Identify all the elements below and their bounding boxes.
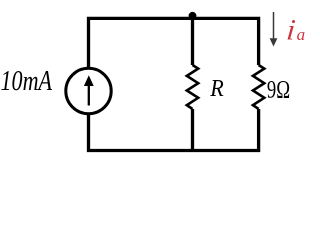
resistor R zigzag [187,65,198,109]
current source I1 arrow head [84,75,94,86]
wire bottom (left riser, bottom rail, right riser) [89,109,259,151]
svg-text:R: R [209,75,223,102]
node A junction dot [189,12,197,20]
current source I1 arrow shaft [88,85,90,106]
svg-text:a: a [297,25,306,44]
current arrow i_a shaft [273,12,275,40]
wire top (left riser, top rail, right riser) [89,18,259,67]
resistor R2 9ohm zigzag [253,65,264,109]
wire middle branch bottom stub [191,109,194,151]
svg-text:10mA: 10mA [1,66,53,97]
svg-text:i: i [285,14,297,46]
current source I1 circle [66,68,111,113]
current arrow i_a head [270,38,278,46]
svg-text:9Ω: 9Ω [267,75,290,104]
wire middle branch top stub [191,18,194,65]
